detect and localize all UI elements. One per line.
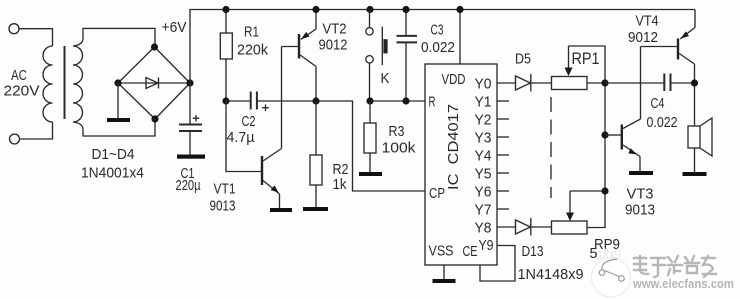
- svg-text:Y3: Y3: [475, 130, 492, 147]
- AC terminal top circle: [9, 24, 19, 34]
- potentiometer RP1: [552, 46, 606, 90]
- capacitor C3: [397, 10, 418, 102]
- svg-text:AC: AC: [11, 67, 27, 84]
- svg-text:1k: 1k: [333, 176, 347, 193]
- watermark logo circle: [592, 258, 631, 297]
- node rail VT2 emitter: [312, 6, 319, 13]
- node K R3: [366, 97, 373, 104]
- svg-text:0.022: 0.022: [421, 39, 455, 56]
- transistor VT1: [261, 47, 282, 209]
- svg-text:Y2: Y2: [475, 112, 492, 129]
- wire +6V rail: [190, 10, 695, 84]
- node C3 R line: [402, 97, 409, 104]
- label VT3 9013: [625, 186, 655, 219]
- svg-text:VSS: VSS: [429, 243, 454, 260]
- svg-text:C4: C4: [651, 95, 665, 112]
- wire VT1 base from node: [226, 101, 261, 172]
- transistor VT3: [605, 47, 641, 172]
- AC terminal bottom circle: [10, 134, 20, 144]
- node rail R1: [222, 6, 229, 13]
- svg-text:R1: R1: [244, 23, 259, 40]
- label C3 0.022: [421, 22, 455, 57]
- ground at VT1 emitter: [270, 208, 292, 212]
- node bridge top: [151, 43, 158, 50]
- label R1 220k: [237, 23, 268, 58]
- svg-text:D1~D4: D1~D4: [92, 146, 135, 163]
- wire Y2 stub: [497, 118, 509, 120]
- svg-text:C3: C3: [431, 22, 444, 39]
- svg-text:R: R: [429, 94, 436, 111]
- svg-text:9013: 9013: [210, 198, 236, 215]
- label C4 0.022: [647, 95, 678, 131]
- svg-text:1N4148x9: 1N4148x9: [518, 266, 584, 283]
- transistor VT2: [282, 10, 317, 102]
- bridge rectifier D1~D4 diamond: [118, 47, 190, 119]
- label R3 100k: [382, 123, 417, 157]
- diode D5: [497, 74, 551, 92]
- label R2 1k: [333, 161, 349, 193]
- node VT2 collector R2: [312, 97, 319, 104]
- svg-text:Y8: Y8: [475, 220, 492, 237]
- node RP9 wiper: [601, 187, 608, 194]
- switch K: [366, 10, 388, 102]
- ground at VSS: [433, 279, 456, 283]
- svg-text:220k: 220k: [237, 42, 268, 59]
- node R1/C2/VT1 base: [222, 97, 229, 104]
- watermark chinese text: [634, 256, 716, 277]
- wire secondary bottom to bridge bottom: [73, 119, 155, 136]
- svg-text:VDD: VDD: [442, 71, 466, 88]
- transistor VT4: [641, 10, 696, 127]
- svg-text:0.022: 0.022: [647, 114, 678, 131]
- svg-text:Y1: Y1: [475, 94, 492, 111]
- svg-text:9013: 9013: [625, 202, 655, 219]
- potentiometer RP9: [552, 191, 606, 234]
- transformer T secondary winding: [73, 46, 83, 122]
- svg-text:9012: 9012: [319, 37, 348, 54]
- svg-text:100k: 100k: [382, 140, 417, 157]
- node bridge bottom: [151, 115, 158, 122]
- capacitor C4: [664, 74, 694, 92]
- wire secondary top to bridge top: [73, 28, 155, 47]
- svg-text:D13: D13: [522, 243, 544, 260]
- speaker B: [688, 118, 712, 172]
- svg-text:9012: 9012: [628, 29, 658, 46]
- wire Y5 stub: [497, 172, 509, 174]
- ground at bridge left: [107, 83, 130, 122]
- svg-text:Y9: Y9: [479, 237, 494, 254]
- wire AC top to primary: [19, 29, 52, 46]
- wire Y9 to CE: [480, 246, 515, 282]
- svg-text:C2: C2: [242, 113, 256, 130]
- wire Y7 stub: [497, 208, 509, 210]
- node bridge right: [186, 79, 193, 86]
- op IC U1 CD4017 box: [425, 64, 497, 265]
- svg-text:Y4: Y4: [475, 148, 492, 165]
- wire Y4 stub: [497, 154, 509, 156]
- wire AC bottom to primary: [20, 122, 53, 139]
- node RP1 out: [601, 79, 608, 86]
- svg-text:VT3: VT3: [627, 186, 654, 203]
- wire RP bus to VT3 base: [604, 83, 606, 191]
- node rail C3: [402, 6, 409, 13]
- svg-text:IC CD4017: IC CD4017: [445, 104, 462, 190]
- svg-text:CP: CP: [429, 185, 445, 202]
- wire VDD: [459, 10, 461, 65]
- ground at VT3 emitter: [629, 171, 653, 175]
- svg-text:D5: D5: [515, 51, 531, 68]
- ground at speaker: [683, 172, 707, 176]
- svg-text:4.7µ: 4.7µ: [227, 129, 255, 146]
- ground at C1: [177, 132, 205, 159]
- label 51kx9 partial: [590, 245, 622, 263]
- ground at R2: [303, 207, 328, 211]
- svg-text:Y0: Y0: [475, 76, 492, 93]
- diode D13: [497, 218, 551, 236]
- dashed ellipsis line: [550, 97, 552, 198]
- transformer core: [64, 46, 66, 119]
- label AC 220V: [4, 67, 40, 100]
- wire Y3 stub: [497, 136, 509, 138]
- wire Y1 stub: [497, 100, 509, 102]
- svg-text:Y5: Y5: [475, 166, 492, 183]
- transformer T primary winding: [43, 46, 53, 122]
- svg-text:VT1: VT1: [214, 181, 236, 198]
- label VT4 9012: [628, 13, 659, 47]
- label VT1 9013: [210, 181, 236, 215]
- svg-text:K: K: [381, 70, 390, 87]
- svg-text:RP1: RP1: [572, 49, 600, 68]
- capacitor C2: [226, 92, 282, 112]
- label VT2 9012: [319, 21, 348, 54]
- svg-text:R3: R3: [389, 123, 405, 140]
- node VT3 base: [601, 131, 608, 138]
- node rail K: [366, 6, 373, 13]
- wire VT2 collector line to CP corner: [282, 101, 426, 191]
- wire node to C4: [605, 82, 664, 84]
- wire R pin line: [370, 100, 426, 102]
- resistor R2: [310, 101, 322, 207]
- capacitor C1: [179, 83, 202, 131]
- svg-text:Y6: Y6: [475, 184, 492, 201]
- label C2 4.7u: [227, 113, 256, 146]
- bridge diode symbol: [118, 78, 190, 89]
- svg-text:Y7: Y7: [475, 202, 492, 219]
- resistor R3: [364, 101, 376, 172]
- wire VSS to ground: [443, 265, 445, 279]
- resistor R1: [220, 10, 232, 102]
- ground at R3: [359, 172, 382, 176]
- node bridge left: [114, 79, 121, 86]
- svg-text:CE: CE: [463, 243, 478, 260]
- node rail VDD: [456, 6, 463, 13]
- svg-text:www.elecfans.com: www.elecfans.com: [632, 277, 734, 291]
- label D1~D4 1N4001x4: [81, 146, 144, 182]
- svg-text:+6V: +6V: [162, 19, 187, 36]
- svg-text:220µ: 220µ: [176, 177, 201, 194]
- wire Y6 stub: [497, 190, 509, 192]
- svg-text:1N4001x4: 1N4001x4: [81, 165, 144, 182]
- node C4 VT4 collector: [691, 79, 698, 86]
- label C1 220u: [176, 165, 201, 194]
- svg-text:VT4: VT4: [636, 13, 659, 30]
- svg-text:VT2: VT2: [323, 21, 347, 38]
- svg-text:220V: 220V: [4, 83, 40, 100]
